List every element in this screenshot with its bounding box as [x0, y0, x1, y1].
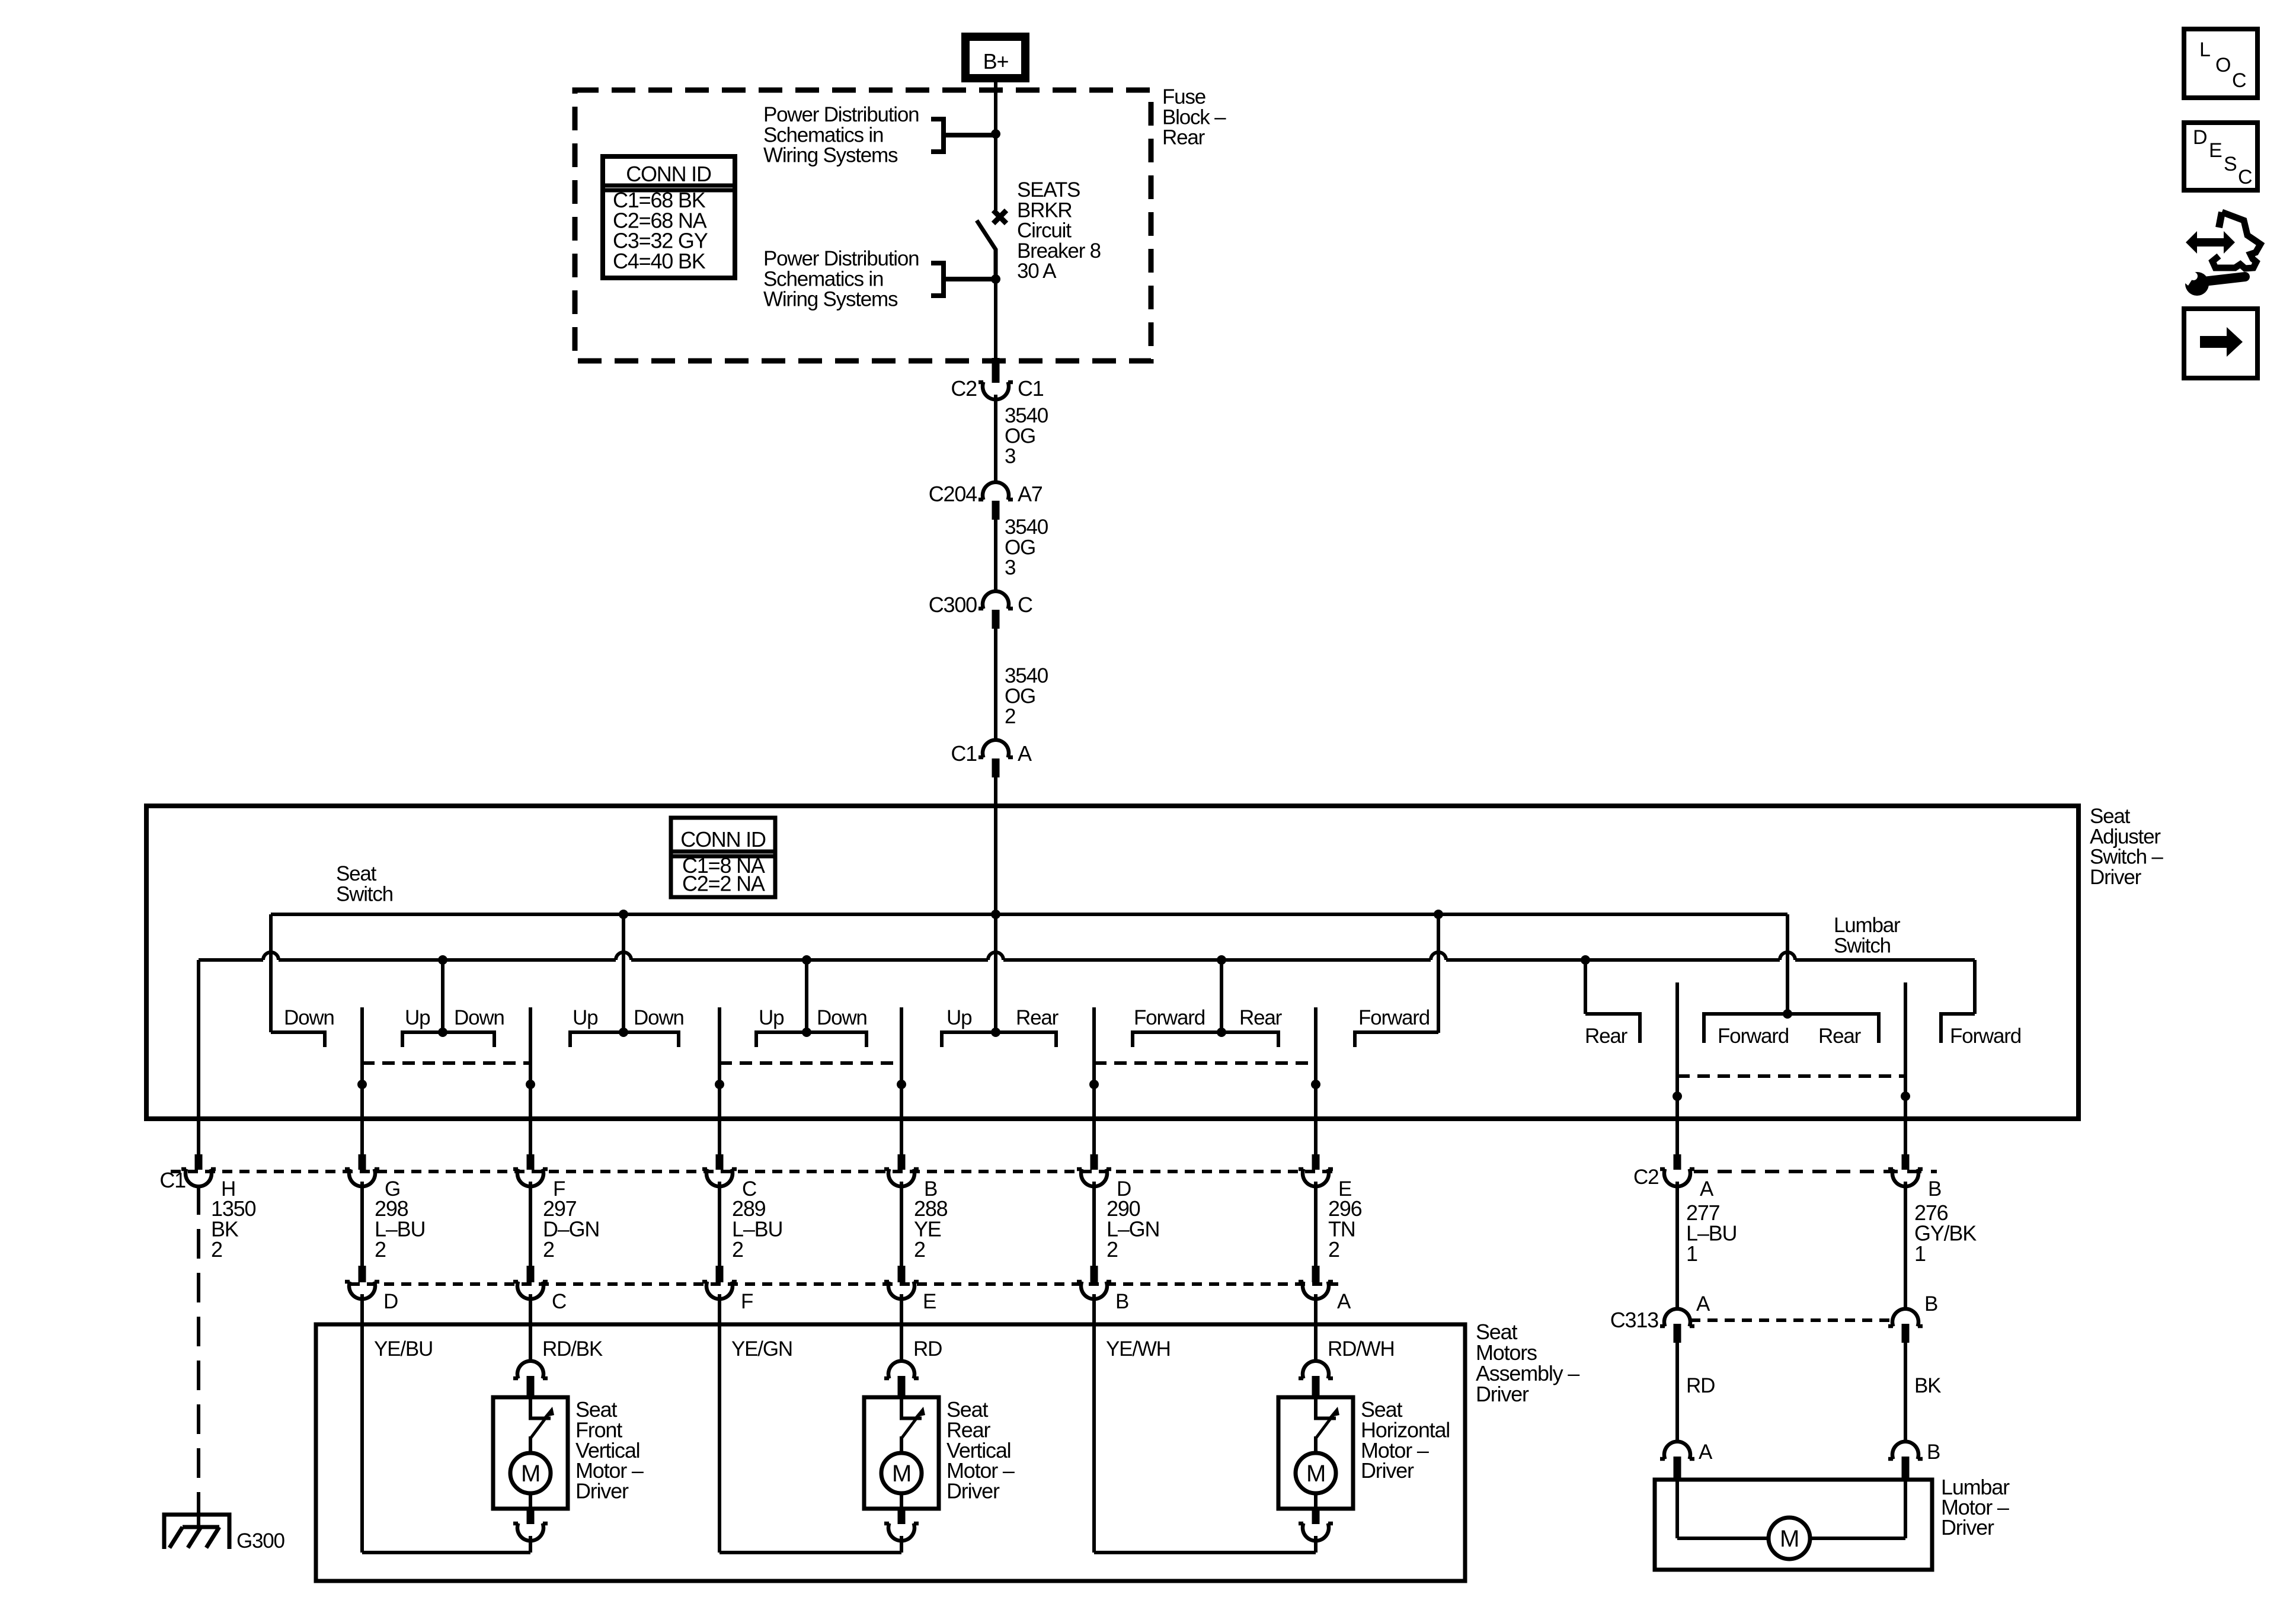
svg-text:A7: A7 [1018, 482, 1043, 506]
svg-text:CONN ID: CONN ID [680, 827, 766, 852]
switch moving contact wire pin F [529, 1007, 532, 1154]
wire 3540 OG segment 1 [994, 395, 997, 482]
svg-text:1: 1 [1686, 1241, 1697, 1266]
switch contact bracket Down group1 [271, 1032, 325, 1047]
B+ power terminal [961, 33, 1029, 82]
svg-text:C2: C2 [1633, 1166, 1658, 1189]
conn id table fuse block [603, 156, 735, 278]
motor bottom wire [900, 1493, 903, 1509]
feed wire lumbar Forward-Rear [1786, 914, 1789, 1014]
motor terminal connector bottom [884, 1523, 919, 1541]
switch contact bracket Up Down group2 [402, 1032, 494, 1047]
lumbar wires C2 row down to C313 [1675, 1182, 1679, 1310]
feed wire group1 Down [269, 914, 273, 1032]
svg-text:O: O [2215, 54, 2230, 76]
thermal breaker inside motor [1314, 1395, 1318, 1419]
svg-text:OG: OG [1005, 424, 1035, 447]
svg-text:D: D [383, 1290, 398, 1313]
connector C1/C2 pin B [898, 1154, 906, 1170]
svg-text:Rear: Rear [1585, 1025, 1628, 1048]
svg-text:Forward: Forward [1718, 1025, 1789, 1048]
svg-text:M: M [1306, 1461, 1325, 1487]
svg-text:B: B [1928, 1177, 1941, 1201]
svg-text:B+: B+ [983, 49, 1009, 73]
svg-text:2: 2 [211, 1237, 222, 1262]
lumbar motor box [1655, 1480, 1932, 1570]
wire breaker to connector C2 [994, 279, 997, 358]
svg-text:A: A [1699, 1441, 1713, 1464]
svg-text:Driver: Driver [1941, 1515, 1994, 1539]
motor assembly connector row dashed line [350, 1282, 1338, 1286]
lumbar motor internal wiring [1675, 1480, 1679, 1538]
svg-text:Wiring Systems: Wiring Systems [763, 144, 898, 167]
svg-text:Driver: Driver [946, 1479, 1000, 1503]
motor M circle [1296, 1453, 1336, 1493]
wire 3540 OG segment 2 [994, 520, 997, 591]
icon connector shape [2219, 212, 2222, 228]
connector C313 pin B [1888, 1309, 1923, 1327]
svg-text:Switch: Switch [336, 882, 393, 905]
lumbar moving contact wire pin A [1675, 982, 1679, 1154]
svg-text:RD: RD [1686, 1374, 1715, 1397]
svg-text:Power Distribution: Power Distribution [763, 103, 919, 126]
svg-text:Up: Up [405, 1006, 430, 1029]
node junctions on lower bus [438, 955, 447, 965]
switch moving contact wire pin B [900, 1007, 903, 1154]
seat motor case [1278, 1397, 1353, 1509]
svg-text:C1: C1 [159, 1168, 186, 1192]
svg-text:2: 2 [732, 1237, 743, 1262]
feed wire group4 [805, 960, 808, 1032]
svg-text:A: A [1696, 1292, 1710, 1315]
feed wire group3 [622, 914, 625, 1032]
svg-text:C: C [552, 1290, 566, 1313]
svg-text:Up: Up [759, 1006, 784, 1029]
svg-text:Up: Up [573, 1006, 597, 1029]
svg-text:Schematics in: Schematics in [763, 267, 883, 290]
feed wire lumbar Forward [1973, 960, 1977, 1014]
fuse block dashed box [575, 90, 1151, 361]
node junctions on upper bus [619, 910, 628, 919]
connector C1/C2 pin G [359, 1154, 366, 1170]
mechanical link dashed group B [720, 1061, 901, 1065]
svg-text:BRKR: BRKR [1017, 199, 1072, 222]
svg-text:Forward: Forward [1358, 1006, 1430, 1029]
svg-text:Driver: Driver [575, 1479, 629, 1503]
motor M circle [510, 1453, 551, 1493]
svg-text:Switch: Switch [1834, 934, 1891, 957]
svg-text:C300: C300 [929, 593, 977, 617]
upper bus B+ rail [271, 913, 1787, 916]
svg-text:BK: BK [1914, 1374, 1941, 1397]
switch contact bracket Forward Rear group6 [1133, 1032, 1278, 1047]
motor assembly connector pin A [1312, 1266, 1320, 1282]
switch contact bracket Up Down group4 [756, 1032, 866, 1047]
connector row C1 dashed line [171, 1170, 1338, 1173]
connector C1/C2 pin B [1902, 1154, 1910, 1170]
svg-text:2: 2 [1107, 1237, 1118, 1262]
connector C1 A switch input [978, 740, 1013, 758]
motor terminal connector top [1299, 1361, 1333, 1379]
wire motor bottom loop [362, 1551, 530, 1554]
connector C1/C2 pin F [527, 1154, 535, 1170]
svg-text:E: E [923, 1290, 936, 1313]
wire to seat adjuster switch [994, 777, 997, 914]
connector C204 A7 [978, 482, 1013, 500]
conn id table switch [671, 818, 775, 897]
power distribution tap bracket lower [931, 263, 996, 296]
connector C2 C1 fuse block output [978, 382, 1013, 400]
svg-text:L: L [2199, 39, 2210, 61]
svg-text:Lumbar: Lumbar [1834, 914, 1901, 937]
wire 3540 OG segment 3 [994, 629, 997, 740]
svg-text:C1: C1 [1018, 376, 1044, 401]
svg-text:OG: OG [1005, 536, 1035, 559]
svg-text:2: 2 [1005, 705, 1015, 728]
lumbar motor M circle [1769, 1518, 1810, 1559]
svg-text:RD/WH: RD/WH [1328, 1337, 1395, 1361]
switch moving contact wire pin C [718, 1007, 721, 1154]
circuit breaker CB8 blade [977, 220, 996, 279]
svg-text:3540: 3540 [1005, 404, 1048, 427]
icon DESC box [2184, 123, 2257, 190]
motor bottom wire [529, 1493, 532, 1509]
ground G300 symbol [164, 1515, 229, 1549]
svg-text:A: A [1018, 741, 1032, 766]
seat motor case [493, 1397, 568, 1509]
lumbar motor connector pin B [1888, 1442, 1923, 1459]
connector C313 pin A [1660, 1309, 1694, 1327]
icon LOC box [2184, 29, 2257, 98]
lumbar contact bracket Rear [1585, 1014, 1640, 1043]
seat adjuster switch box [146, 806, 2078, 1119]
seat motors assembly box [316, 1324, 1465, 1581]
feed wire lumbar Rear [1584, 960, 1587, 1014]
svg-text:Down: Down [284, 1006, 334, 1029]
svg-text:3540: 3540 [1005, 516, 1048, 539]
svg-text:M: M [521, 1461, 540, 1487]
connector C313 dashed line [1690, 1318, 1892, 1322]
switch contact bracket Up Rear group5 [942, 1032, 1056, 1047]
seat motor case [864, 1397, 939, 1509]
svg-text:CONN ID: CONN ID [626, 162, 711, 186]
connector C1/C2 pin C [716, 1154, 724, 1170]
motor terminal connector bottom [1299, 1523, 1333, 1541]
feed wire group2 [441, 960, 445, 1032]
svg-text:B: B [1115, 1290, 1128, 1313]
svg-text:Schematics in: Schematics in [763, 123, 883, 146]
svg-text:Driver: Driver [2090, 866, 2142, 889]
wire motor bottom loop [1094, 1551, 1316, 1554]
svg-text:2: 2 [543, 1237, 554, 1262]
svg-text:Down: Down [817, 1006, 867, 1029]
svg-text:B: B [1927, 1441, 1940, 1464]
svg-text:2: 2 [1328, 1237, 1339, 1262]
motor terminal connector top [513, 1361, 548, 1379]
thermal breaker inside motor [529, 1395, 532, 1419]
icon wrench [2199, 277, 2245, 282]
svg-text:A: A [1337, 1290, 1351, 1313]
svg-text:D: D [2193, 126, 2207, 149]
svg-text:S: S [2224, 153, 2237, 175]
feed wire group7 Forward [1437, 914, 1440, 1033]
switch contact bracket Forward group7 [1355, 1032, 1438, 1047]
node junction lower tap [991, 274, 1000, 284]
motor assembly connector pin F [716, 1266, 724, 1282]
svg-text:Adjuster: Adjuster [2090, 825, 2161, 848]
connector C1/C2 pin H [195, 1154, 203, 1170]
feed wire group5 [994, 914, 997, 1032]
svg-text:C2=2 NA: C2=2 NA [682, 872, 765, 896]
thermal breaker inside motor [900, 1395, 903, 1419]
svg-text:Rear: Rear [1162, 126, 1205, 149]
svg-text:Rear: Rear [1818, 1025, 1862, 1048]
svg-text:Circuit: Circuit [1017, 219, 1072, 242]
svg-text:A: A [1700, 1177, 1714, 1201]
wire junction to breaker contact [994, 134, 997, 210]
svg-text:1: 1 [1914, 1241, 1926, 1266]
svg-text:Down: Down [634, 1006, 684, 1029]
svg-text:Forward: Forward [1950, 1025, 2021, 1048]
svg-text:2: 2 [375, 1237, 386, 1262]
power distribution tap bracket upper [931, 119, 996, 152]
svg-text:SEATS: SEATS [1017, 178, 1080, 201]
motor terminal connector bottom [513, 1523, 548, 1541]
wire motor bottom loop [720, 1551, 901, 1554]
svg-text:C4=40 BK: C4=40 BK [613, 249, 706, 273]
svg-text:RD/BK: RD/BK [542, 1337, 603, 1361]
svg-text:Forward: Forward [1134, 1006, 1205, 1029]
wires C1 row to motor connector row [360, 1182, 364, 1266]
svg-text:RD: RD [913, 1337, 942, 1361]
svg-text:F: F [741, 1290, 753, 1313]
svg-text:Seat: Seat [2090, 805, 2131, 828]
svg-text:M: M [1780, 1526, 1799, 1552]
connector row C2 dashed line [1694, 1170, 1937, 1173]
motor assembly connector pin C [527, 1266, 535, 1282]
svg-text:E: E [2209, 139, 2222, 162]
svg-text:YE/GN: YE/GN [731, 1337, 792, 1361]
svg-text:G300: G300 [236, 1529, 285, 1553]
svg-text:Driver: Driver [1361, 1458, 1414, 1483]
switch contact bracket Up Down group3 [570, 1032, 679, 1047]
svg-text:OG: OG [1005, 684, 1035, 708]
lumbar contact bracket Forward [1941, 1014, 1975, 1043]
svg-text:Fuse: Fuse [1162, 85, 1205, 108]
wire B+ to breaker [994, 82, 997, 134]
svg-text:Down: Down [454, 1006, 504, 1029]
wire hop crossings on lower bus [263, 952, 279, 960]
icon double arrow [2186, 231, 2235, 254]
motor M circle [881, 1453, 922, 1493]
svg-text:C1: C1 [951, 741, 977, 766]
switch moving contact wire pin E [1314, 1007, 1318, 1154]
circuit breaker CB8 contact X [993, 210, 1006, 223]
motor bottom wire [1314, 1493, 1318, 1509]
lumbar moving contact wire pin B [1904, 982, 1907, 1154]
svg-text:C: C [2232, 69, 2246, 92]
svg-text:YE/BU: YE/BU [374, 1337, 433, 1361]
mechanical link dashed group C [1094, 1061, 1316, 1065]
ground wire from lower bus to pin H [197, 960, 200, 1154]
svg-text:3: 3 [1005, 445, 1015, 468]
ground wire dashed to G300 [197, 1185, 200, 1499]
switch moving contact wire pin D [1092, 1007, 1096, 1154]
svg-text:C313: C313 [1610, 1308, 1658, 1332]
svg-text:Up: Up [946, 1006, 971, 1029]
connector C1/C2 pin D [1091, 1154, 1098, 1170]
svg-text:Seat: Seat [336, 862, 377, 885]
switch moving contact wire pin G [360, 1007, 364, 1154]
motor assembly connector pin B [1091, 1266, 1098, 1282]
svg-text:B: B [1924, 1292, 1937, 1315]
svg-text:2: 2 [914, 1237, 925, 1262]
lumbar contact bracket Forward Rear [1704, 1014, 1879, 1043]
icon next arrow box [2184, 309, 2257, 378]
svg-text:Power Distribution: Power Distribution [763, 247, 919, 270]
motor assembly connector pin E [898, 1266, 906, 1282]
svg-text:C204: C204 [929, 482, 977, 506]
svg-text:C: C [2238, 166, 2252, 188]
svg-text:Switch –: Switch – [2090, 846, 2163, 869]
motor terminal connector top [884, 1361, 919, 1379]
svg-text:YE/WH: YE/WH [1106, 1337, 1171, 1361]
connector C1/C2 pin E [1312, 1154, 1320, 1170]
connector C300 C [978, 591, 1013, 609]
svg-text:Breaker 8: Breaker 8 [1017, 239, 1101, 263]
svg-text:M: M [892, 1461, 911, 1487]
svg-text:Block –: Block – [1162, 105, 1226, 129]
svg-text:Rear: Rear [1239, 1006, 1283, 1029]
motor assembly connector pin D [359, 1266, 366, 1282]
svg-text:Driver: Driver [1476, 1382, 1529, 1406]
svg-text:Wiring Systems: Wiring Systems [763, 288, 898, 311]
svg-text:3540: 3540 [1005, 664, 1048, 687]
mechanical link dashed group A [362, 1061, 530, 1065]
svg-text:30 A: 30 A [1017, 260, 1057, 283]
node junction upper tap [991, 129, 1000, 139]
svg-text:3: 3 [1005, 556, 1015, 580]
svg-text:Rear: Rear [1016, 1006, 1059, 1029]
svg-text:C2: C2 [951, 376, 977, 401]
mechanical link dashed lumbar [1677, 1074, 1905, 1078]
lower bus rail [199, 958, 263, 962]
svg-text:C: C [1018, 593, 1032, 617]
connector C1/C2 pin A [1674, 1154, 1681, 1170]
lumbar motor connector pin A [1660, 1442, 1694, 1459]
feed wire group6 [1220, 960, 1223, 1032]
